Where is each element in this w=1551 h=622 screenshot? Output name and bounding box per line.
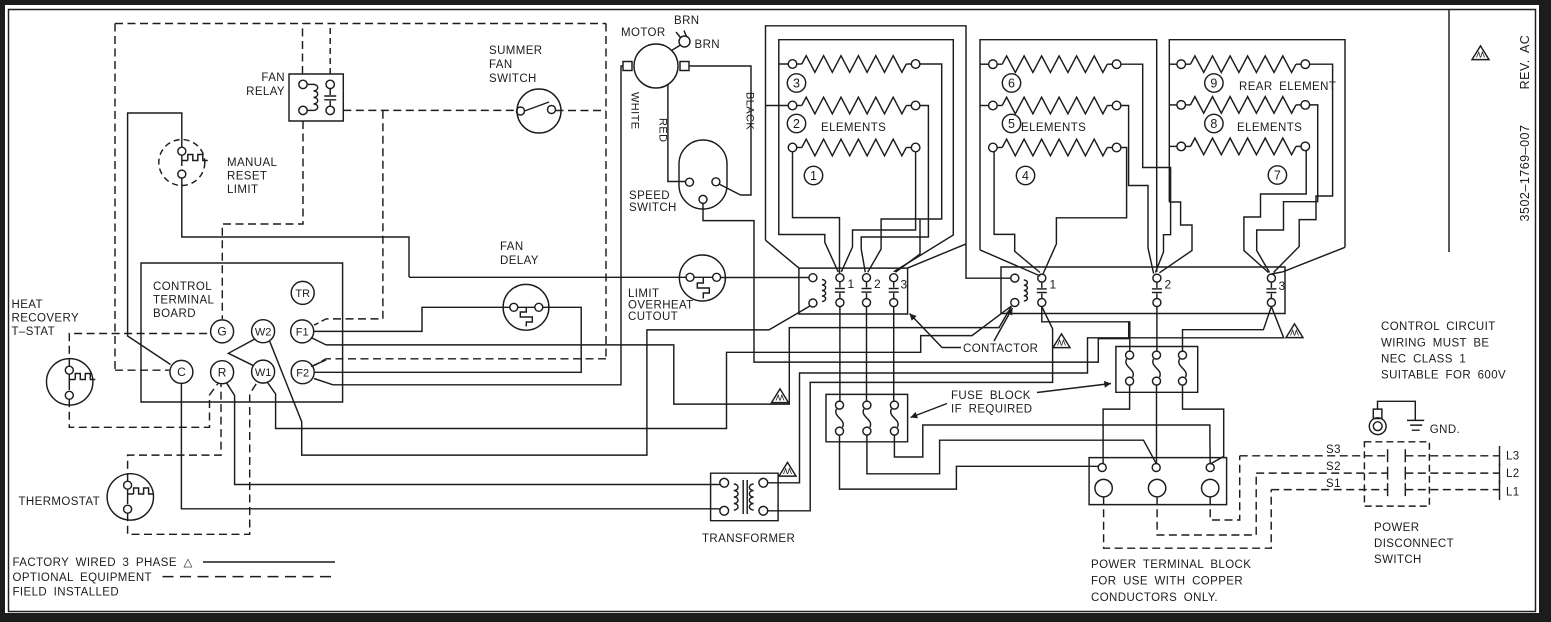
contactor 2 box — [1001, 267, 1285, 314]
svg-text:ELEMENTS: ELEMENTS — [1237, 122, 1302, 134]
element bank A outer loop — [766, 26, 967, 268]
contactor 1 coil contacts — [809, 274, 817, 282]
wire motor black — [689, 66, 751, 195]
svg-text:BOARD: BOARD — [153, 308, 196, 320]
motor left terminal — [623, 62, 632, 71]
wire element2 left — [766, 105, 789, 107]
transformer core — [743, 480, 747, 514]
svg-text:FOR USE WITH COPPER: FOR USE WITH COPPER — [1091, 576, 1243, 588]
contactor 2 coil — [1024, 280, 1028, 301]
dashed wire summer fan switch to x606 — [556, 110, 607, 112]
svg-text:HEAT: HEAT — [12, 299, 43, 311]
svg-text:WHITE: WHITE — [629, 92, 641, 129]
contactor 1 box — [799, 268, 908, 314]
disconnect switch dashed box — [1364, 442, 1429, 506]
wire speed switch common — [703, 203, 1129, 362]
svg-text:CONTROL: CONTROL — [153, 281, 212, 293]
svg-text:SWITCH: SWITCH — [1374, 554, 1422, 566]
svg-text:CONDUCTORS ONLY.: CONDUCTORS ONLY. — [1091, 592, 1218, 604]
wire element6 right leg — [1121, 64, 1171, 272]
resistor element 2 — [788, 101, 797, 110]
warning triangle near contactor 2 — [1053, 334, 1070, 348]
terminal C — [170, 360, 193, 383]
wire fuse1-2 to terminal — [867, 435, 1156, 474]
wire pole2-3 to fuse2-3 — [1183, 307, 1272, 352]
wire pole2-2 to fuse2-2 — [1156, 307, 1158, 352]
dashed wire thermostat bottom to W1 — [128, 383, 257, 535]
terminal R — [211, 361, 234, 384]
fuse 1-1 — [836, 401, 844, 409]
limit overheat cutout circle — [679, 255, 725, 301]
svg-text:2: 2 — [1165, 278, 1172, 292]
svg-text:1: 1 — [810, 169, 817, 183]
line terminal L3 — [1499, 446, 1501, 466]
summer fan switch contacts — [517, 107, 525, 115]
wire F2 stub diagonal — [311, 360, 326, 367]
fan relay coil — [307, 83, 313, 85]
svg-text:DELAY: DELAY — [500, 255, 539, 267]
wire element9 right leg — [1274, 64, 1333, 272]
wire F1 to fan delay — [314, 307, 510, 331]
wire element7 left — [1169, 145, 1177, 147]
dashed wire S2 — [1256, 472, 1499, 474]
element bank B box — [980, 40, 1157, 272]
manual reset limit contacts — [178, 147, 186, 155]
dashed wire fan relay top to boundary — [302, 24, 304, 75]
wire element1 right leg — [841, 152, 915, 272]
svg-text:IF REQUIRED: IF REQUIRED — [951, 404, 1033, 416]
motor right terminal — [680, 62, 689, 71]
svg-text:ELEMENTS: ELEMENTS — [821, 122, 886, 134]
fan delay circle — [503, 284, 549, 330]
svg-text:SUITABLE FOR 600V: SUITABLE FOR 600V — [1381, 370, 1506, 382]
resistor element 4 — [989, 143, 998, 152]
terminal F2 — [291, 361, 314, 384]
svg-text:POWER TERMINAL BLOCK: POWER TERMINAL BLOCK — [1091, 559, 1251, 571]
svg-text:REAR ELEMENT: REAR ELEMENT — [1239, 81, 1336, 93]
heat recovery t-stat thermal element — [69, 374, 95, 391]
border frame outer — [0, 0, 1551, 5]
svg-text:ELEMENTS: ELEMENTS — [1021, 122, 1086, 134]
wire fuse1-1 to terminal — [840, 435, 1099, 489]
resistor element 9 — [1177, 60, 1186, 69]
wire W2-W1 jumper — [228, 339, 254, 365]
svg-text:OVERHEAT: OVERHEAT — [628, 300, 694, 312]
wire element2 right leg — [861, 106, 928, 273]
svg-text:OPTIONAL EQUIPMENT: OPTIONAL EQUIPMENT — [13, 572, 153, 584]
fuse label leader left — [911, 404, 948, 418]
contactor 1 pole 1 — [836, 274, 844, 282]
resistor element 6 — [989, 60, 998, 69]
wire fuse2-3 to terminal — [1183, 385, 1224, 464]
wire bankA pole3 leg — [896, 219, 921, 272]
fuse block 2 box — [1116, 347, 1198, 393]
svg-text:L2: L2 — [1506, 468, 1520, 480]
fuse block 1 box — [826, 394, 908, 441]
svg-text:TR: TR — [295, 288, 310, 300]
svg-text:TERMINAL: TERMINAL — [153, 295, 215, 307]
terminal F1 — [291, 320, 314, 343]
wire cutout to contactor1 coil — [721, 277, 809, 279]
wire element6 left — [980, 63, 989, 65]
dashed wire S1 — [1271, 489, 1499, 491]
svg-text:RELAY: RELAY — [246, 86, 285, 98]
speed switch body — [679, 140, 727, 209]
wire element5 right leg — [1121, 106, 1154, 274]
svg-text:FAN: FAN — [489, 59, 513, 71]
warning triangle above transformer — [772, 389, 789, 403]
wire motor red — [668, 84, 686, 182]
svg-text:CONTROL CIRCUIT: CONTROL CIRCUIT — [1381, 321, 1496, 333]
wire fuse2-1 to terminal — [1103, 385, 1130, 463]
wire element4 right leg — [1043, 148, 1127, 275]
BRN plug — [679, 36, 690, 47]
dashed wire heat recovery top to G — [69, 334, 210, 367]
contactor 2 pole 3 — [1267, 274, 1275, 282]
svg-text:1: 1 — [1050, 278, 1057, 292]
speed switch blade — [719, 184, 741, 195]
manual reset limit circle dashed — [159, 140, 205, 186]
wire pole3 to fuse3 — [893, 307, 895, 401]
svg-text:RED: RED — [657, 118, 669, 142]
summer fan switch blade — [525, 102, 550, 111]
svg-text:R: R — [218, 365, 227, 379]
svg-text:6: 6 — [1008, 76, 1015, 90]
fuse 2-1 — [1126, 351, 1134, 359]
wire W2 run to contactor1 coil — [270, 306, 810, 455]
title block divider line — [1448, 10, 1450, 253]
svg-text:FIELD INSTALLED: FIELD INSTALLED — [13, 587, 120, 599]
fuse 2-2 — [1153, 351, 1161, 359]
svg-text:2: 2 — [874, 277, 881, 291]
svg-text:LIMIT: LIMIT — [628, 288, 659, 300]
thermostat contacts — [124, 481, 132, 489]
svg-text:L1: L1 — [1506, 487, 1520, 499]
dashed wire terminal2 to S2 — [1157, 473, 1256, 535]
transformer primary coil — [734, 484, 738, 510]
contactor leader right — [994, 308, 1013, 341]
svg-text:W2: W2 — [255, 326, 272, 338]
terminal G — [211, 320, 234, 343]
svg-text:BRN: BRN — [674, 15, 699, 27]
wire pole2-1 to fuse2-1 — [1042, 307, 1130, 352]
svg-text:RESET: RESET — [227, 171, 267, 183]
dashed wire terminal3 to S3 — [1210, 456, 1240, 520]
svg-text:RECOVERY: RECOVERY — [12, 313, 80, 325]
warning triangle right of pole 2-3 — [1286, 324, 1303, 338]
wire element8 right leg — [1257, 105, 1318, 273]
wire F1 long run — [326, 306, 1012, 404]
svg-text:7: 7 — [1274, 168, 1281, 182]
fan delay contacts — [510, 303, 518, 311]
heat recovery t-stat circle — [46, 359, 92, 405]
wire manual reset limit to fan line — [182, 178, 409, 277]
svg-text:NEC CLASS 1: NEC CLASS 1 — [1381, 354, 1466, 366]
contactor 1 pole 3 — [890, 274, 898, 282]
wire fan line to cutout — [409, 276, 686, 278]
svg-text:S2: S2 — [1326, 461, 1341, 473]
dashed stub into F1 top — [314, 319, 327, 326]
resistor element 7 — [1177, 142, 1186, 151]
svg-text:F1: F1 — [296, 327, 309, 339]
power terminal small contacts — [1098, 464, 1106, 472]
wire W1 run — [268, 306, 1012, 428]
transformer secondary contacts — [759, 478, 768, 487]
svg-text:THERMOSTAT: THERMOSTAT — [19, 496, 101, 508]
warning triangle top right — [1472, 46, 1489, 60]
element bank B left funnel — [980, 151, 1040, 276]
power terminal block box — [1089, 458, 1227, 505]
heat recovery t-stat contacts — [65, 366, 73, 374]
ground wire — [1378, 401, 1416, 420]
svg-text:WIRING MUST BE: WIRING MUST BE — [1381, 338, 1490, 350]
dashed wire S3 — [1240, 455, 1500, 457]
dashed wire fan relay contact to summer fan switch — [343, 109, 516, 111]
dashed wire heat recovery bottom to R — [69, 384, 218, 428]
svg-text:DISCONNECT: DISCONNECT — [1374, 538, 1454, 550]
disconnect blades S1 — [1388, 483, 1406, 496]
svg-text:SWITCH: SWITCH — [489, 73, 537, 85]
fan relay box — [289, 74, 343, 121]
svg-text:9: 9 — [1210, 76, 1217, 90]
element bank A inner loop — [779, 40, 954, 272]
wire bankA outer to contactor2 coil — [966, 244, 1010, 278]
disconnect blades S3 — [1388, 449, 1406, 462]
dashed stub into F2 top — [314, 359, 327, 366]
wire element1 left leg — [793, 152, 840, 273]
fan relay contact — [326, 80, 334, 88]
dashed wire branch to F1 — [326, 111, 383, 319]
summer fan switch circle — [517, 89, 561, 133]
svg-text:CUTOUT: CUTOUT — [628, 311, 678, 323]
svg-text:BRN: BRN — [695, 39, 720, 51]
dashed wire thermostat top to R — [128, 384, 221, 482]
resistor element 3 — [788, 60, 797, 69]
resistor element 1 — [788, 143, 797, 152]
fuse 1-2 — [863, 401, 871, 409]
wire C run to transformer — [181, 383, 719, 508]
svg-text:MANUAL: MANUAL — [227, 157, 278, 169]
wire white to F2 stub — [314, 379, 333, 385]
wire fan delay to F2 — [314, 307, 581, 372]
wire element8 left — [1169, 104, 1177, 106]
svg-text:8: 8 — [1210, 117, 1217, 131]
terminal W1 — [252, 360, 275, 383]
svg-text:LIMIT: LIMIT — [227, 184, 258, 196]
thermostat thermal element — [128, 488, 154, 504]
dashed boundary left leg to C — [115, 24, 169, 371]
svg-text:SUMMER: SUMMER — [489, 45, 543, 57]
power terminal big contacts — [1095, 479, 1112, 496]
wire C up-leg to manual reset limit — [128, 113, 182, 365]
warning triangle transformer — [779, 462, 796, 476]
legend solid sample line — [203, 561, 335, 563]
svg-text:2: 2 — [793, 117, 800, 131]
fan delay thermal element — [518, 307, 535, 326]
fuse label leader right — [1037, 384, 1111, 393]
line terminal L1 — [1499, 480, 1501, 500]
legend dashed sample line — [163, 576, 336, 578]
fuse 1-3 — [890, 401, 898, 409]
wire pole1 to fuse1 — [839, 307, 841, 401]
svg-text:S3: S3 — [1326, 444, 1341, 456]
resistor element 5 — [989, 101, 998, 110]
resistor element 8 — [1177, 101, 1186, 110]
svg-text:3: 3 — [1279, 279, 1286, 293]
limit overheat cutout thermal element — [694, 277, 713, 298]
wire R run to transformer — [227, 383, 720, 485]
svg-text:T–STAT: T–STAT — [12, 326, 56, 338]
contactor 1 pole 2 — [863, 274, 871, 282]
dashed wire terminal1 to S1 — [1104, 490, 1272, 549]
contactor 2 pole 1 — [1038, 274, 1046, 282]
wire fuse2-2 to terminal — [1156, 385, 1158, 463]
svg-text:4: 4 — [1022, 169, 1029, 183]
contactor 2 pole 2 — [1153, 274, 1161, 282]
transformer secondary coil — [749, 484, 753, 510]
transformer box — [711, 473, 779, 521]
wire motor white — [333, 66, 623, 385]
svg-text:FAN: FAN — [500, 241, 524, 253]
limit overheat cutout contacts — [686, 273, 694, 281]
dashed boundary top — [115, 23, 606, 25]
svg-text:FAN: FAN — [261, 72, 285, 84]
wire fuse1-3 to terminal — [894, 425, 1210, 464]
svg-text:3: 3 — [793, 76, 800, 90]
wire transformer secondary bottom — [768, 307, 1053, 511]
contactor 2 coil contacts — [1011, 274, 1019, 282]
svg-text:FUSE BLOCK: FUSE BLOCK — [951, 390, 1031, 402]
wire element3 right leg — [868, 64, 942, 272]
svg-text:SPEED: SPEED — [629, 190, 670, 202]
contactor leader left — [942, 347, 961, 349]
fuse 2-3 — [1179, 351, 1187, 359]
svg-text:TRANSFORMER: TRANSFORMER — [702, 533, 795, 545]
terminal TR — [291, 281, 314, 304]
svg-text:CONTACTOR: CONTACTOR — [963, 343, 1038, 355]
svg-text:MOTOR: MOTOR — [621, 27, 666, 39]
disconnect blades S2 — [1388, 467, 1406, 480]
motor circle — [634, 44, 678, 88]
wire element5 left — [980, 105, 989, 107]
dashed wire fan relay coil to G — [222, 121, 303, 319]
svg-text:L3: L3 — [1506, 451, 1520, 463]
svg-text:5: 5 — [1008, 117, 1015, 131]
ground lug — [1369, 418, 1386, 435]
svg-text:C: C — [177, 365, 186, 379]
svg-text:BLACK: BLACK — [744, 92, 756, 130]
dashed boundary right leg x606 — [326, 24, 606, 359]
terminal W2 — [252, 320, 275, 343]
ground symbol — [1407, 420, 1424, 430]
control terminal board box — [141, 263, 343, 402]
thermostat circle — [107, 474, 153, 520]
speed switch contacts — [686, 178, 694, 186]
svg-text:F2: F2 — [296, 367, 309, 379]
transformer primary contacts — [720, 478, 729, 487]
svg-text:S1: S1 — [1326, 478, 1341, 490]
contactor 1 coil — [822, 280, 826, 302]
svg-text:GND.: GND. — [1430, 424, 1460, 436]
wire element9 left — [1169, 63, 1177, 65]
wire transformer secondary top — [768, 307, 1284, 483]
svg-text:REV. AC: REV. AC — [1518, 35, 1532, 90]
svg-text:SWITCH: SWITCH — [629, 202, 677, 214]
fan relay coil contacts — [299, 80, 307, 88]
svg-text:G: G — [217, 325, 226, 339]
wire F1 stub diagonal — [311, 338, 326, 345]
svg-text:3502–1769–007: 3502–1769–007 — [1518, 125, 1532, 222]
line terminal L2 — [1499, 464, 1501, 484]
manual reset limit thermal element — [182, 155, 208, 167]
svg-text:3: 3 — [901, 278, 908, 292]
svg-text:FACTORY WIRED 3 PHASE △: FACTORY WIRED 3 PHASE △ — [13, 557, 194, 569]
wire element7 right leg — [1244, 151, 1306, 273]
element bank C box — [1159, 40, 1345, 274]
wire pole2 to fuse2 — [866, 307, 868, 401]
svg-text:W1: W1 — [255, 367, 272, 379]
svg-text:1: 1 — [848, 277, 855, 291]
svg-text:POWER: POWER — [1374, 522, 1419, 534]
